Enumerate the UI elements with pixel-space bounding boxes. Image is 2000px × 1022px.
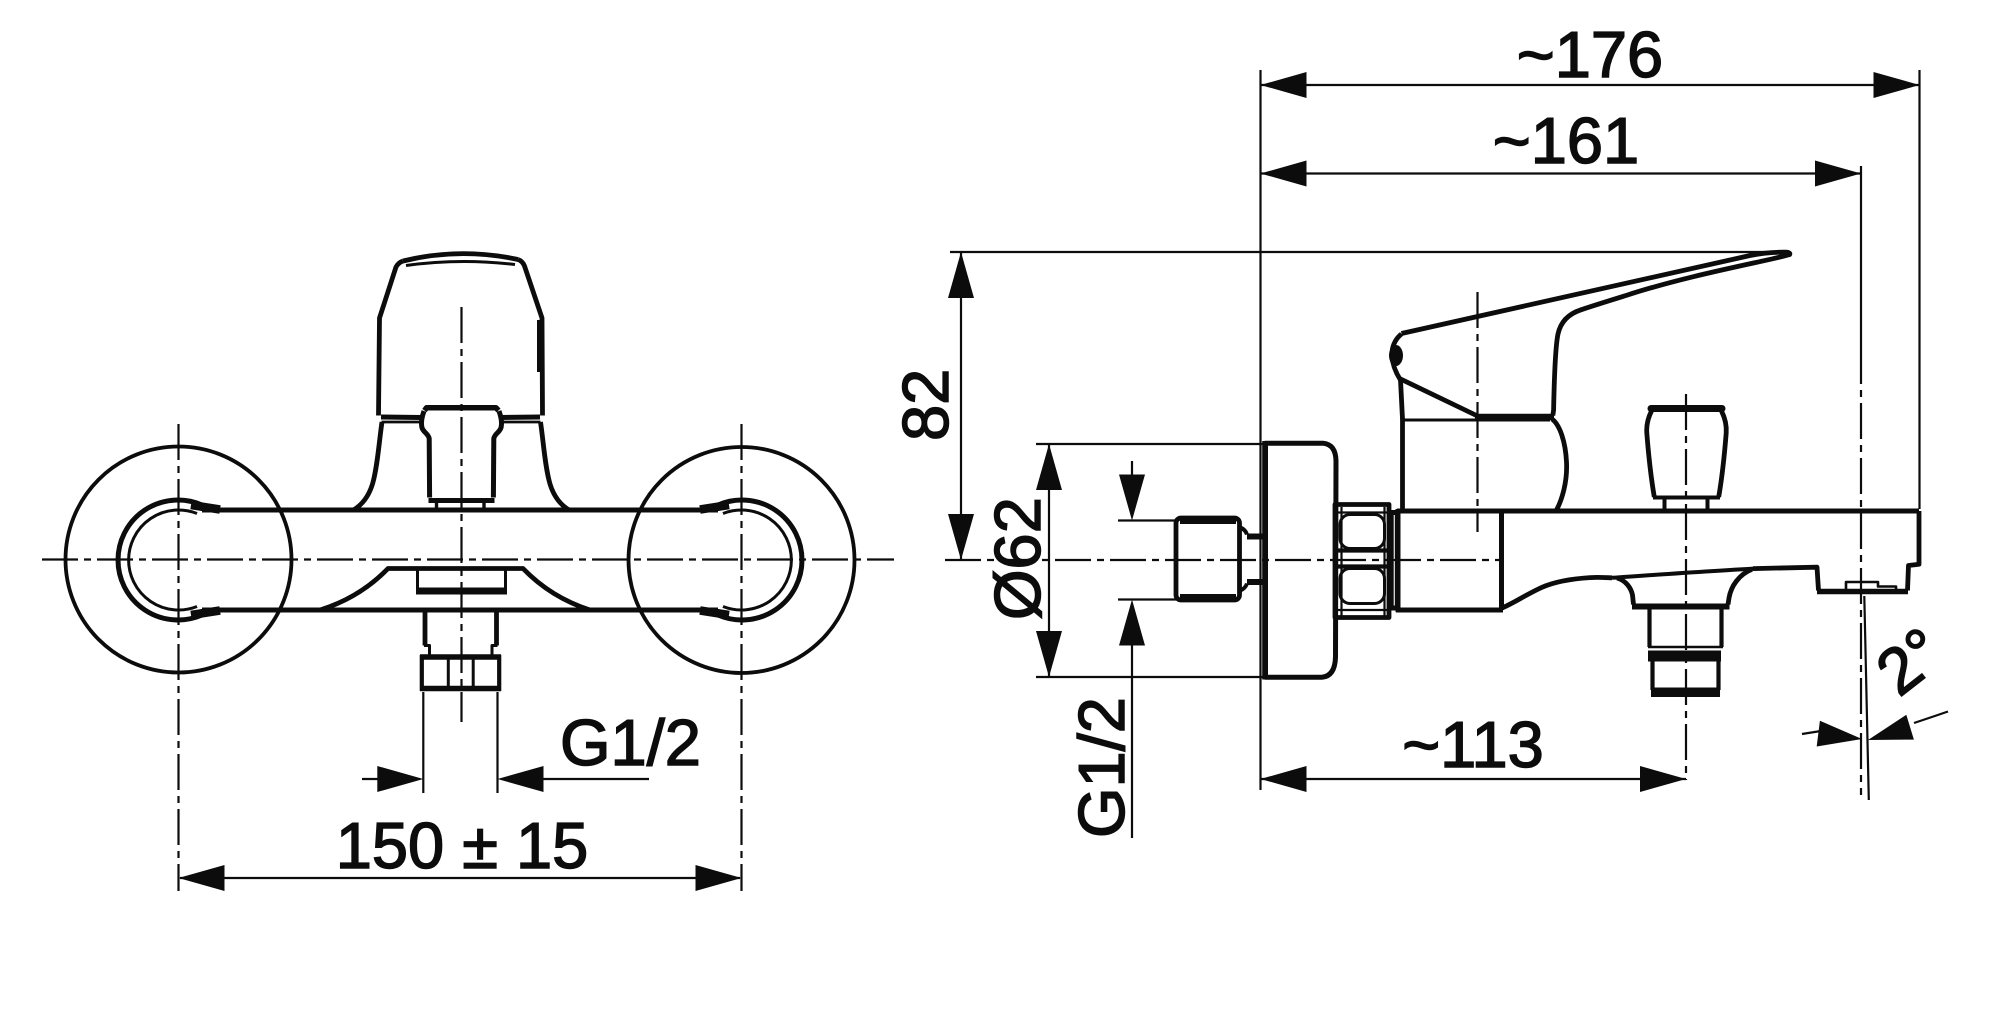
centerline shower outlet: [1685, 394, 1687, 780]
dim 113 line: [1261, 778, 1687, 780]
extension 161 solid upper part: [1860, 166, 1862, 348]
handle dome top cap inner seam: [406, 261, 515, 265]
spout far underside edge behind boss: [1612, 569, 1754, 578]
diverter knob bottom edge: [1653, 496, 1720, 500]
cartridge neck bottom edge: [429, 498, 495, 503]
body bottom edge deep section: [1396, 608, 1503, 613]
handle dome left slope: [379, 261, 404, 416]
handle dome right slope: [518, 260, 543, 416]
2deg arrow right: [1868, 715, 1914, 740]
svg-text:G1/2: G1/2: [560, 706, 701, 779]
centerline horizontal side view: [945, 559, 1503, 561]
dia62 dimension line: [1048, 444, 1050, 677]
cartridge collar left: [435, 503, 438, 511]
escutcheon circle left: [66, 447, 292, 673]
svg-text:Ø62: Ø62: [981, 497, 1054, 620]
cartridge neck right side: [493, 411, 501, 498]
valve tower left edge: [1400, 418, 1405, 511]
handle dome bottom edge left: [381, 415, 421, 421]
82 arrow down: [948, 514, 974, 560]
hex nut front bottom edge: [420, 686, 501, 692]
nut top band: [1337, 511, 1387, 513]
union neck bottom: [1240, 584, 1248, 592]
extension line G1/2 left: [422, 692, 424, 793]
escutcheon circle right: [629, 447, 855, 673]
right cap junction tick bottom: [700, 611, 729, 616]
handle back edge: [1392, 334, 1403, 419]
nut mid line lower: [1337, 564, 1387, 568]
flange face line left edge: [1262, 441, 1267, 680]
nut facet lower: [1340, 569, 1385, 604]
spout underside right of boss: [1728, 569, 1752, 604]
spout underside profile: [1502, 577, 1612, 608]
nut bottom band: [1337, 609, 1387, 611]
spout tip mouth thick line: [416, 588, 507, 595]
boss left fillet: [1617, 578, 1634, 605]
wall plane extension line: [1259, 70, 1261, 790]
dia62 extension top: [1036, 443, 1263, 445]
aerator housing right edge and spout tip: [1908, 511, 1920, 591]
body top edge side: [1397, 509, 1919, 514]
G12 side dim line lower: [1131, 638, 1133, 838]
G12 side arrow up: [1119, 600, 1145, 646]
centerline horizontal front view: [42, 558, 894, 560]
shower outlet pipe shoulder line: [1648, 646, 1723, 649]
diverter knob top thick: [1651, 405, 1722, 412]
hex nut front right side: [497, 655, 501, 691]
diverter knob right side: [1719, 411, 1727, 497]
shower outlet pipe upper left: [1647, 609, 1651, 647]
G12 side dim line upper: [1131, 461, 1133, 482]
nut mid line upper: [1337, 548, 1387, 552]
G12 side tick top: [1118, 519, 1176, 521]
collar washer right line: [1395, 512, 1398, 608]
2deg tilted line: [1864, 596, 1869, 800]
body left cap inner: [129, 510, 197, 610]
pipe step left: [424, 646, 430, 656]
collar top thick: [1389, 510, 1399, 515]
dim 176 line: [1261, 84, 1920, 86]
dim 161 arrow left: [1261, 161, 1307, 187]
diverter knob left side: [1647, 411, 1655, 497]
150 dimension line: [180, 877, 740, 879]
nut facet upper: [1340, 515, 1385, 549]
centerline aerator / 161 extension: [1860, 348, 1862, 795]
shower outlet bottom band dark: [1651, 688, 1720, 698]
cartridge neck left side: [421, 411, 429, 498]
collar washer left line: [1390, 512, 1393, 608]
diverter knob neck right: [1706, 498, 1710, 510]
aerator insert step: [1846, 582, 1896, 590]
shower outlet pipe lower left: [1650, 662, 1654, 691]
dim 176 arrow right: [1874, 72, 1920, 98]
shower boss bottom thick: [1632, 604, 1730, 610]
G1/2 arrow left: [377, 766, 423, 792]
svg-text:G1/2: G1/2: [1065, 697, 1138, 838]
extension line spout tip: [1918, 70, 1920, 509]
bell skirt right side: [541, 422, 571, 511]
wall flange outline: [1266, 443, 1337, 677]
body left edge side: [1396, 509, 1401, 612]
wall union cylinder: [1176, 518, 1240, 600]
diverter knob neck left: [1663, 498, 1667, 510]
body right cap inner: [723, 510, 791, 610]
G1/2 arrow right: [498, 766, 544, 792]
bell skirt left side: [353, 422, 383, 511]
bell skirt top edge right: [501, 421, 541, 424]
aerator housing bottom thick: [1817, 589, 1908, 595]
union cylinder bottom edge thick: [1180, 594, 1236, 601]
cartridge cap base thick: [1475, 414, 1554, 421]
extension line G1/2 right: [496, 692, 498, 793]
dim 161 line: [1261, 172, 1862, 174]
G1/2 dimension line left tail: [362, 778, 381, 780]
150 arrow right: [696, 865, 742, 891]
2deg arrow left: [1817, 721, 1862, 747]
bell skirt top edge left: [382, 421, 422, 424]
left cap junction tick bottom: [191, 611, 220, 616]
dia62 arrow up: [1036, 444, 1062, 490]
spout underside before aerator housing: [1753, 567, 1819, 590]
union cylinder top edge thick: [1180, 517, 1236, 524]
svg-text:~176: ~176: [1517, 18, 1663, 91]
hex nut front top edge: [420, 654, 501, 660]
handle lever outline: [1402, 252, 1790, 415]
centerline handle front view: [460, 307, 462, 722]
dim 113 arrow left: [1261, 766, 1307, 792]
centerline valve axis side view: [1476, 292, 1478, 532]
82 extension line top: [950, 251, 1786, 253]
valve tower right edge: [1552, 419, 1567, 511]
shower outlet pipe lower right: [1716, 662, 1720, 691]
centerline vertical left escutcheon: [177, 424, 179, 891]
spout tip window right edge: [504, 569, 507, 590]
centerline vertical right escutcheon: [740, 424, 742, 891]
cartridge neck top edge: [425, 408, 499, 411]
pipe step right: [492, 646, 498, 656]
svg-text:82: 82: [889, 369, 962, 441]
union neck bottom thick: [1247, 579, 1263, 585]
union neck top: [1240, 527, 1248, 535]
handle set screw: [1389, 345, 1403, 366]
dia62 arrow down: [1036, 631, 1062, 677]
left cap junction tick top: [191, 505, 220, 510]
nut chamfer right: [1383, 507, 1385, 616]
2deg tail right arc: [1914, 712, 1948, 724]
body right cap outer: [718, 500, 802, 620]
body bar top edge: [202, 508, 718, 513]
spout saddle outline front: [320, 569, 590, 611]
outlet pipe right side front: [494, 612, 499, 646]
shower outlet thread band dark: [1648, 651, 1721, 662]
handle dome bottom edge right: [501, 415, 540, 421]
dim 161 arrow right: [1815, 161, 1861, 187]
valve tower top line: [1403, 419, 1551, 422]
svg-text:~113: ~113: [1402, 708, 1544, 781]
shower outlet pipe upper right: [1719, 609, 1723, 647]
nut chamfer left: [1340, 507, 1342, 616]
dia62 extension bottom: [1036, 676, 1263, 678]
hex nut front left side: [420, 655, 424, 691]
G12 side arrow down: [1119, 475, 1145, 521]
spout tip window left edge: [416, 569, 419, 590]
G1/2 dimension line right tail: [540, 778, 649, 780]
union neck top thick: [1247, 534, 1263, 540]
handle lever tip edge thick bar right: [537, 320, 544, 372]
dim 176 arrow left: [1261, 72, 1307, 98]
G12 side tick bottom: [1118, 598, 1176, 600]
hex nut facet line left: [447, 658, 450, 687]
hex nut facet line right: [472, 658, 475, 687]
svg-text:~161: ~161: [1493, 104, 1639, 177]
valve body front face: [1499, 511, 1504, 610]
handle dome top cap outer: [403, 254, 518, 261]
right cap junction tick top: [700, 505, 729, 510]
dim 113 arrow right: [1640, 766, 1686, 792]
82 dimension line: [960, 252, 962, 560]
cartridge collar right: [482, 503, 485, 511]
hex nut side outline: [1335, 505, 1389, 618]
2deg tail left: [1802, 731, 1824, 735]
body left cap outer: [118, 500, 202, 620]
82 arrow up: [948, 252, 974, 298]
outlet pipe left side front: [423, 612, 428, 646]
svg-text:150 ± 15: 150 ± 15: [336, 809, 589, 882]
150 arrow left: [179, 865, 225, 891]
handle cap slope edge: [1400, 379, 1477, 416]
body bar bottom edge: [202, 608, 718, 613]
collar bottom thick: [1389, 606, 1399, 611]
